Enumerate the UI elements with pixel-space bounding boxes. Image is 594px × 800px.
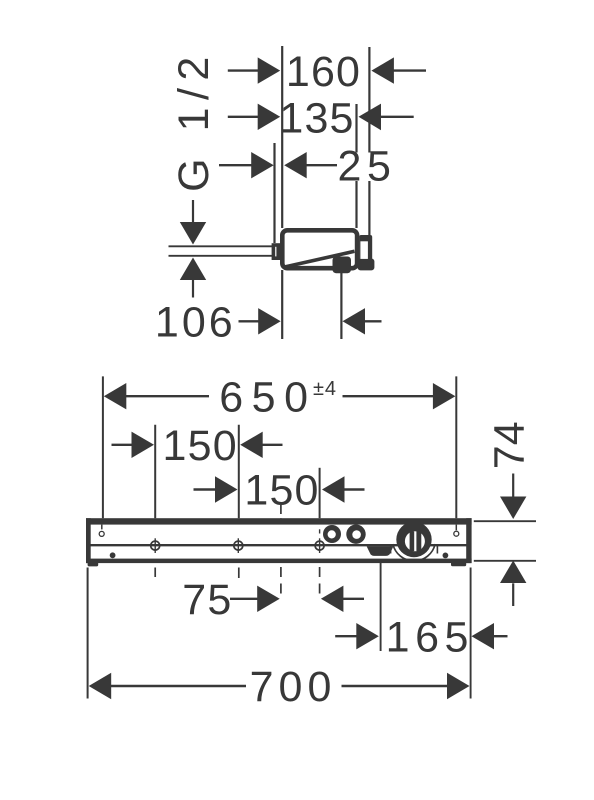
extension line A below valve [281,270,283,339]
extension line A (left of valve, x=282) [281,46,283,228]
G1/2 measuring line lower with up arrow [180,258,206,281]
bar foot right [451,560,466,566]
ext line 700 left (x=87.6) [87,568,89,699]
ext line 650 right (x=456.3) [455,376,457,518]
L1 dashed below bar [154,568,156,578]
dimension 150 row1 left arrow [132,432,155,458]
L3 dashed below bar [319,567,321,599]
ext line L1 (x=155.2) [154,425,156,518]
svg-text:650: 650 [219,374,316,422]
extension line A2 (x=274.5) [273,143,275,243]
knob disc [396,522,431,557]
valve right connector foot [358,259,375,271]
valve right connector window [360,241,368,259]
dimension 150 row1 right arrow [240,432,263,458]
ext line L3 (x=319.6) [319,468,321,518]
dimension 160 left arrow [258,57,281,83]
bar top edge extension [474,520,536,522]
svg-text:75: 75 [182,576,232,624]
valve right connector [359,235,372,266]
bar inner horizontal line [90,544,467,546]
dimension 135 left arrow [258,104,281,130]
svg-text:5: 5 [367,142,392,190]
bar right edge [466,518,471,563]
extension line B (x=356.5, dim 135 right) [355,104,357,228]
dot right [443,553,449,559]
dimension 135 right arrow [359,104,382,131]
dimension 165 right arrow [472,623,495,649]
dimension 160 right arrow [371,57,394,83]
dimension 75 left arrow [257,586,280,612]
dimension 650 right arrow [433,383,456,409]
svg-text:165: 165 [386,613,474,661]
extension line C (x=369.4, dim 160 right) [368,47,370,235]
svg-text:106: 106 [155,299,236,347]
center dashed line below bar [280,567,282,599]
knob escutcheon side ticks [390,545,392,554]
knob grip bars [410,532,415,552]
extension line D (x=341.4, below valve) [340,271,342,339]
svg-text:160: 160 [286,48,361,96]
ext line L2 (x=238.8) [238,425,240,518]
svg-text:±4: ±4 [313,378,337,400]
crosshair 3 [315,541,324,550]
bar left edge [86,518,91,563]
inlet pipe lines [169,245,273,247]
G1/2 measuring line upper with down arrow [192,200,194,223]
valve left inlet connector [273,245,278,258]
valve bottom bump [333,257,352,274]
screw hole stubs [101,525,103,530]
dimension 165 left arrow [356,623,379,649]
ext line 700/165 right (x=470.6) [470,568,472,699]
L2 dashed below bar [238,568,240,579]
dimension 25 left arrow [251,152,274,178]
ext line 650 left (x=102.9) [102,376,104,518]
button donut 2 [346,525,365,544]
valve diagonal lever line [285,251,355,267]
svg-text:2: 2 [337,142,362,190]
dimension 106 left arrow [258,308,281,334]
svg-text:150: 150 [244,467,319,515]
bar bottom edge extension [474,560,536,562]
svg-text:150: 150 [163,422,238,470]
hose outlet trapezoid [367,546,394,556]
dimension 700 left arrow [89,673,112,699]
center dashed line above bar [280,505,282,518]
dimension 700 right arrow [447,673,470,699]
dimension 650 left arrow [104,383,127,409]
bar bottom edge [86,559,472,564]
screw hole left [99,531,104,536]
svg-text:700: 700 [250,663,337,711]
valve body (side view) [282,230,357,268]
svg-text:G 1/2: G 1/2 [170,49,218,192]
screw hole right [454,531,459,536]
crosshair 1 [151,541,160,550]
dimension 25 right arrow [284,152,307,178]
crosshair 2 [234,541,243,550]
dimension 150 row2 left arrow [215,476,238,502]
dimension 106 right arrow [343,308,366,334]
knob white lens [405,531,425,551]
button donut 1 [323,525,341,543]
hose outlet ext line (x=380.6) [380,562,382,651]
mask behind 25 text [338,153,391,182]
bar top edge [86,518,472,524]
dimension 74 up arrow and lower line [500,561,526,584]
dimension 150 row2 right arrow [322,476,345,502]
svg-text:135: 135 [279,94,354,142]
dimension 74 upper line and down arrow [512,474,514,499]
dimension 75 right arrow [321,586,344,612]
svg-text:74: 74 [486,421,534,469]
dot left [110,552,116,558]
knob flange bottom arc [393,544,435,561]
bar foot left [88,560,99,566]
